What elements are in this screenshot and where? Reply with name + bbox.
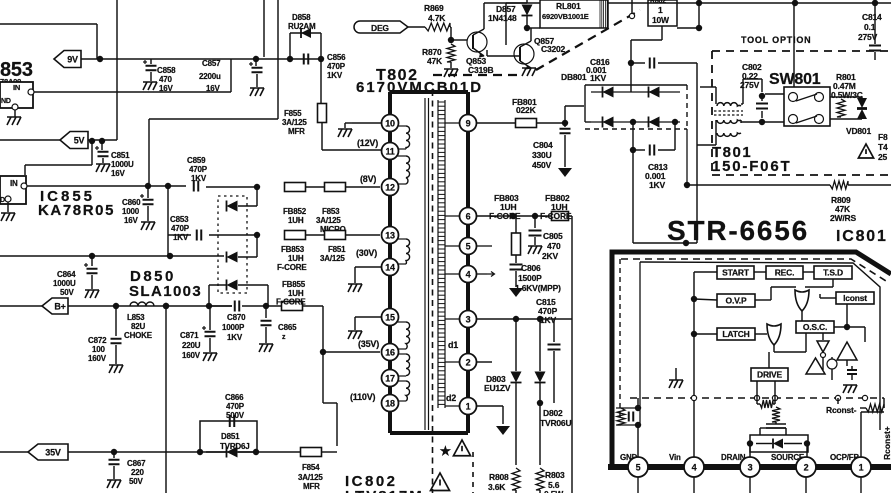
svg-text:3A/125: 3A/125 xyxy=(316,216,341,225)
svg-text:1N4148: 1N4148 xyxy=(488,13,517,23)
svg-text:F853: F853 xyxy=(322,207,340,216)
svg-text:3: 3 xyxy=(466,315,471,325)
svg-text:R869: R869 xyxy=(424,3,444,13)
svg-text:1KV: 1KV xyxy=(649,180,665,190)
svg-text:5: 5 xyxy=(466,242,471,252)
svg-text:F851: F851 xyxy=(328,245,346,254)
svg-text:IN: IN xyxy=(13,83,20,92)
svg-text:470: 470 xyxy=(159,75,172,84)
svg-text:47K: 47K xyxy=(427,56,443,66)
svg-text:B+: B+ xyxy=(54,302,65,312)
svg-text:C871: C871 xyxy=(180,331,199,340)
svg-text:470P: 470P xyxy=(171,224,190,233)
svg-text:100: 100 xyxy=(92,345,105,354)
svg-text:1: 1 xyxy=(466,402,471,412)
svg-text:C867: C867 xyxy=(127,459,146,468)
svg-text:17: 17 xyxy=(385,374,395,384)
svg-text:1KV: 1KV xyxy=(590,73,606,83)
svg-text:4.7K: 4.7K xyxy=(428,13,446,23)
svg-text:D: D xyxy=(0,197,5,204)
svg-text:18: 18 xyxy=(385,399,395,409)
svg-text:1000: 1000 xyxy=(122,207,140,216)
svg-text:d1: d1 xyxy=(448,340,458,350)
svg-text:F855: F855 xyxy=(284,109,302,118)
svg-text:START: START xyxy=(722,268,750,278)
svg-text:F-CORE: F-CORE xyxy=(540,211,572,221)
svg-text:DRIVE: DRIVE xyxy=(757,370,783,380)
svg-text:1000P: 1000P xyxy=(222,323,245,332)
svg-text:3.6K: 3.6K xyxy=(488,482,506,492)
svg-text:50V: 50V xyxy=(129,477,143,486)
svg-text:25: 25 xyxy=(878,152,888,162)
svg-text:Iconst: Iconst xyxy=(843,293,867,303)
svg-text:2: 2 xyxy=(466,358,471,368)
svg-text:35V: 35V xyxy=(45,448,61,458)
svg-text:D802: D802 xyxy=(543,408,563,418)
svg-text:13: 13 xyxy=(385,231,395,241)
svg-text:220U: 220U xyxy=(182,341,201,350)
svg-text:1KV: 1KV xyxy=(227,333,243,342)
svg-text:C856: C856 xyxy=(327,53,346,62)
svg-text:C814: C814 xyxy=(862,12,882,22)
svg-text:TVR06U: TVR06U xyxy=(540,418,571,428)
svg-text:D858: D858 xyxy=(292,13,311,22)
svg-text:2KV: 2KV xyxy=(542,251,558,261)
svg-text:C865: C865 xyxy=(278,323,297,332)
svg-text:16V: 16V xyxy=(111,169,125,178)
svg-text:2200u: 2200u xyxy=(199,72,221,81)
svg-text:0.1: 0.1 xyxy=(864,22,876,32)
svg-text:160V: 160V xyxy=(182,351,201,360)
svg-text:DEG: DEG xyxy=(371,23,389,33)
svg-text:SLA1003: SLA1003 xyxy=(129,283,202,300)
svg-text:EU1ZV: EU1ZV xyxy=(484,383,511,393)
svg-text:16V: 16V xyxy=(159,84,173,93)
svg-text:3A/125: 3A/125 xyxy=(320,254,345,263)
svg-text:Rconst+: Rconst+ xyxy=(882,426,891,460)
svg-text:150-F06T: 150-F06T xyxy=(712,158,791,175)
svg-text:C804: C804 xyxy=(533,140,553,150)
svg-text:VD801: VD801 xyxy=(846,126,871,136)
svg-text:C857: C857 xyxy=(202,59,221,68)
svg-text:C805: C805 xyxy=(543,231,563,241)
svg-text:3A/125: 3A/125 xyxy=(298,473,323,482)
svg-text:6: 6 xyxy=(466,212,471,222)
svg-text:470P: 470P xyxy=(226,402,245,411)
svg-text:330U: 330U xyxy=(532,150,552,160)
svg-text:STR-6656: STR-6656 xyxy=(667,215,809,246)
svg-text:220: 220 xyxy=(131,468,144,477)
svg-text:O.S.C.: O.S.C. xyxy=(803,322,827,332)
svg-text:IN: IN xyxy=(10,179,18,188)
svg-text:(8V): (8V) xyxy=(360,174,376,184)
svg-text:RL801: RL801 xyxy=(556,1,581,11)
svg-text:C864: C864 xyxy=(57,270,76,279)
svg-text:ND: ND xyxy=(1,98,11,105)
svg-text:CHOKE: CHOKE xyxy=(124,331,153,340)
svg-text:IC801: IC801 xyxy=(836,228,888,245)
svg-text:C859: C859 xyxy=(187,156,206,165)
svg-text:1.6KV(MPP): 1.6KV(MPP) xyxy=(515,283,561,293)
svg-text:1500P: 1500P xyxy=(518,273,542,283)
svg-text:12: 12 xyxy=(385,183,395,193)
svg-text:500V: 500V xyxy=(226,411,245,420)
svg-text:SW801: SW801 xyxy=(769,71,821,88)
svg-text:1: 1 xyxy=(658,5,663,15)
svg-text:(30V): (30V) xyxy=(356,248,377,258)
svg-text:C858: C858 xyxy=(157,66,176,75)
svg-text:F854: F854 xyxy=(302,463,320,472)
svg-text:9: 9 xyxy=(466,119,471,129)
svg-text:16V: 16V xyxy=(124,216,138,225)
svg-text:D851: D851 xyxy=(221,432,240,441)
svg-text:C860: C860 xyxy=(122,198,141,207)
svg-text:TOOL OPTION: TOOL OPTION xyxy=(741,35,811,45)
svg-text:1000U: 1000U xyxy=(111,160,134,169)
svg-text:d2: d2 xyxy=(446,393,456,403)
svg-text:1UH: 1UH xyxy=(288,216,304,225)
svg-text:4: 4 xyxy=(466,270,471,280)
svg-text:10W: 10W xyxy=(652,15,670,25)
svg-text:L853: L853 xyxy=(127,313,145,322)
svg-text:5: 5 xyxy=(636,463,641,473)
svg-text:MFR: MFR xyxy=(288,127,305,136)
svg-text:470P: 470P xyxy=(327,62,346,71)
svg-text:Vin: Vin xyxy=(669,453,681,462)
svg-text:1KV: 1KV xyxy=(173,233,189,242)
svg-text:9V: 9V xyxy=(67,55,78,65)
svg-text:10: 10 xyxy=(385,119,395,129)
svg-text:6920VB1001E: 6920VB1001E xyxy=(542,12,589,21)
svg-text:50V: 50V xyxy=(60,288,74,297)
svg-text:C866: C866 xyxy=(225,393,244,402)
svg-text:4: 4 xyxy=(692,463,697,473)
svg-text:160V: 160V xyxy=(88,354,107,363)
svg-text:T.S.D: T.S.D xyxy=(823,268,843,278)
svg-text:C853: C853 xyxy=(170,215,189,224)
svg-text:★: ★ xyxy=(440,444,451,458)
svg-text:3: 3 xyxy=(748,463,753,473)
svg-text:022K: 022K xyxy=(516,105,537,115)
svg-text:1KV: 1KV xyxy=(327,71,343,80)
svg-text:0.5W: 0.5W xyxy=(544,489,564,493)
svg-text:2: 2 xyxy=(804,463,809,473)
svg-text:470: 470 xyxy=(547,241,561,251)
svg-text:KA78R05: KA78R05 xyxy=(38,202,115,219)
svg-text:MFR: MFR xyxy=(303,482,320,491)
svg-text:F-CORE: F-CORE xyxy=(277,263,307,272)
svg-text:FB855: FB855 xyxy=(282,280,306,289)
svg-text:REC.: REC. xyxy=(775,268,795,278)
svg-text:R808: R808 xyxy=(489,472,509,482)
svg-text:C870: C870 xyxy=(227,313,246,322)
svg-text:LTV817M: LTV817M xyxy=(345,488,424,493)
svg-text:FB852: FB852 xyxy=(283,207,307,216)
svg-text:5V: 5V xyxy=(74,136,85,146)
svg-text:C851: C851 xyxy=(111,151,130,160)
svg-text:O.V.P: O.V.P xyxy=(726,296,747,306)
svg-text:LATCH: LATCH xyxy=(722,329,749,339)
svg-text:470P: 470P xyxy=(189,165,208,174)
svg-text:16: 16 xyxy=(385,348,395,358)
svg-text:R803: R803 xyxy=(545,470,565,480)
svg-text:DB801: DB801 xyxy=(561,72,587,82)
svg-text:F-CORE: F-CORE xyxy=(276,298,306,307)
svg-text:14: 14 xyxy=(385,263,395,273)
svg-text:RU2AM: RU2AM xyxy=(288,22,316,31)
svg-text:1: 1 xyxy=(859,463,864,473)
svg-text:C319B: C319B xyxy=(468,65,494,75)
svg-text:F8: F8 xyxy=(878,132,888,142)
svg-text:(110V): (110V) xyxy=(350,392,376,402)
svg-text:3A/125: 3A/125 xyxy=(282,118,307,127)
svg-text:(12V): (12V) xyxy=(357,138,378,148)
svg-text:82U: 82U xyxy=(131,322,145,331)
svg-text:(35V): (35V) xyxy=(358,339,379,349)
svg-text:C3202: C3202 xyxy=(541,44,566,54)
svg-text:2W/RS: 2W/RS xyxy=(830,213,856,223)
svg-text:11: 11 xyxy=(385,147,394,157)
svg-text:15: 15 xyxy=(385,313,395,323)
svg-text:Rconst-: Rconst- xyxy=(826,405,857,415)
svg-text:450V: 450V xyxy=(532,160,552,170)
svg-text:16V: 16V xyxy=(206,84,220,93)
svg-text:FB853: FB853 xyxy=(281,245,305,254)
svg-text:1000U: 1000U xyxy=(53,279,76,288)
svg-text:C806: C806 xyxy=(521,263,541,273)
svg-text:1UH: 1UH xyxy=(288,254,304,263)
svg-text:T4: T4 xyxy=(878,142,888,152)
svg-text:C872: C872 xyxy=(88,336,107,345)
